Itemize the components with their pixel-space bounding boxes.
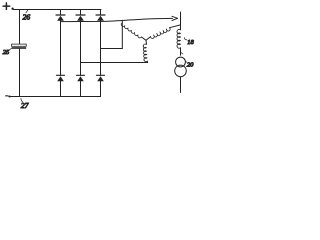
stator winding arm 1 — [121, 23, 141, 38]
leader 20 — [185, 60, 187, 63]
wire column 2 mid — [80, 21, 82, 76]
stator winding arm 3 — [143, 44, 147, 62]
leader 27 — [21, 98, 23, 102]
diode D4 bottom (column 1) — [57, 75, 65, 96]
wire arm 2 to field column — [170, 25, 181, 28]
wire slip ring bar top — [180, 12, 182, 30]
svg-text:20: 20 — [187, 61, 194, 68]
diode D5 bottom (column 2) — [77, 75, 85, 96]
diode D3 top (column 3) — [96, 10, 105, 21]
wire to column 3 tap — [101, 48, 123, 50]
terminal dot negative — [9, 95, 11, 97]
wire coil to rings — [180, 48, 182, 55]
svg-text:25: 25 — [3, 49, 10, 56]
leader 26 — [26, 10, 28, 13]
wire arm 1 to centre — [142, 37, 147, 40]
stator winding arm 2 — [146, 37, 151, 41]
inductor L18 field coil — [177, 29, 180, 48]
wire arm 3 to phase wire — [146, 61, 148, 62]
svg-text:26: 26 — [23, 12, 31, 21]
wire phase to brush — [61, 18, 173, 21]
leader 25 — [9, 48, 12, 50]
leader 18 — [184, 38, 187, 40]
wire capacitor bottom lead — [19, 49, 21, 97]
svg-text:27: 27 — [21, 101, 29, 110]
slip ring lower 20 — [175, 65, 187, 77]
shaft line — [180, 77, 182, 93]
wire top rail — [13, 9, 101, 11]
wire junction drop — [121, 20, 123, 48]
terminal dot positive — [11, 8, 13, 10]
diode D6 bottom (column 3) — [97, 75, 105, 96]
wire phase B tap — [81, 62, 148, 64]
brush arrow — [172, 16, 178, 20]
diode D2 top (column 2) — [76, 10, 85, 21]
wire column 3 mid — [100, 21, 102, 76]
minus terminal — [5, 95, 8, 96]
capacitor 25 — [12, 44, 27, 46]
wire bottom rail — [9, 96, 101, 98]
wire capacitor top lead — [19, 10, 21, 45]
diode D1 top (column 1) — [56, 10, 65, 21]
node wye centre — [145, 40, 148, 44]
svg-text:18: 18 — [187, 39, 194, 46]
wire column 1 mid — [60, 21, 62, 76]
slip ring upper 20 — [176, 57, 186, 67]
plus terminal — [3, 3, 10, 9]
